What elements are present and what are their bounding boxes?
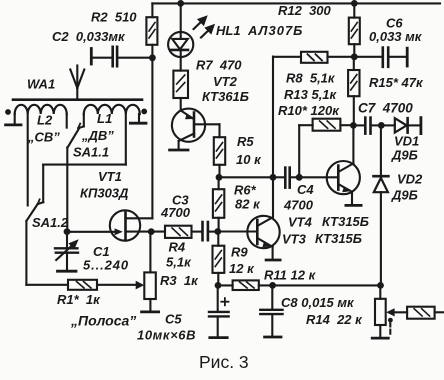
svg-text:КП303Д: КП303Д xyxy=(80,186,129,201)
wire SA1.1 lever to VT1 gate node xyxy=(66,147,68,231)
resistor R3 xyxy=(142,232,159,312)
node junction top-left (R2 top) xyxy=(151,3,153,17)
svg-text:R2 510: R2 510 xyxy=(91,10,137,25)
svg-text:SA1.2: SA1.2 xyxy=(32,215,69,230)
diode VD1 xyxy=(381,118,421,134)
svg-text:VD1: VD1 xyxy=(394,134,419,149)
diode VD2 xyxy=(374,125,389,285)
svg-text:VT1: VT1 xyxy=(98,169,122,184)
wire L2 tap to SA1.2 left contact xyxy=(27,114,29,206)
svg-text:VT3: VT3 xyxy=(282,232,307,247)
resistor R2 xyxy=(146,17,157,45)
node R9/R11/C5 junction dot xyxy=(215,282,222,289)
svg-text:VT2: VT2 xyxy=(213,74,238,89)
resistor R9 xyxy=(213,232,225,286)
node R14 wiper dot xyxy=(388,318,393,323)
inductor L2 xyxy=(15,105,67,114)
resistor R1 xyxy=(68,280,97,290)
svg-text:R9: R9 xyxy=(231,245,248,260)
wire VT4 base lead xyxy=(299,176,338,178)
capacitor C2 xyxy=(91,47,152,66)
svg-text:R13 5,1к: R13 5,1к xyxy=(284,87,338,102)
capacitor C1 variable xyxy=(55,232,79,272)
wire VT2 base to R5 xyxy=(218,124,220,137)
svg-text:R5: R5 xyxy=(237,134,254,149)
svg-text:С7 4700: С7 4700 xyxy=(358,101,413,116)
capacitor C7 xyxy=(353,118,381,134)
LED HL1 emission arrows xyxy=(194,15,216,37)
antenna WA1 xyxy=(70,66,84,100)
wire R11 node to VD2/R14 node xyxy=(273,284,381,286)
transistor VT3 xyxy=(247,216,280,260)
inductor L1 xyxy=(84,105,140,114)
wire HL1 to R7 xyxy=(180,50,182,71)
wire rail to SA1.2 right contact (with foot) xyxy=(38,165,44,204)
wire L1 left end (SA1.1 contact with foot) xyxy=(78,114,84,128)
resistor R12 xyxy=(349,3,360,56)
node R13/C7/R10/VT4 collector junction dot xyxy=(350,122,357,129)
node C2/R2 junction dot xyxy=(149,54,156,61)
svg-text:VD2: VD2 xyxy=(397,172,423,187)
svg-text:R10* 120к: R10* 120к xyxy=(278,103,340,118)
node VT1 source / R4 / R3 junction dot xyxy=(148,228,155,235)
wire x273 column (R8 corner down to VT3 collector) xyxy=(272,57,274,218)
svg-text:0,033 мк: 0,033 мк xyxy=(369,29,423,44)
svg-text:HL1: HL1 xyxy=(216,23,241,38)
wire R7 to VT2 emitter xyxy=(180,98,182,111)
svg-text:„СВ”: „СВ” xyxy=(27,130,60,145)
wire L2 right end (SA1.1 contact) xyxy=(66,114,68,128)
node VT1 gate / C1 junction dot xyxy=(64,228,71,235)
svg-text:R11 12 к: R11 12 к xyxy=(264,268,317,283)
wire R14 wiper arrow from output resistor xyxy=(386,308,407,316)
capacitor C6 xyxy=(354,48,407,67)
resistor R5 xyxy=(214,137,225,165)
node R6/C3/VT3base/R9 junction dot xyxy=(214,228,221,235)
node VD2/R14 junction dot xyxy=(377,282,384,289)
svg-text:Рис. 3: Рис. 3 xyxy=(199,352,249,372)
node R11/C8 junction dot xyxy=(269,282,276,289)
wire dashed mechanical link below wiper xyxy=(389,323,391,337)
transistor VT1 xyxy=(110,210,153,240)
node R5R6/C4/VT3 collector junction dot xyxy=(270,174,277,181)
svg-text:4700: 4700 xyxy=(160,205,191,220)
svg-text:КТ315Б: КТ315Б xyxy=(322,214,369,229)
svg-text:АЛ307Б: АЛ307Б xyxy=(247,23,303,38)
svg-text:Д9Б: Д9Б xyxy=(391,148,418,163)
svg-text:R6*: R6* xyxy=(234,183,257,198)
capacitor C5 electrolytic xyxy=(209,285,229,337)
node HL1 top junction dot xyxy=(177,0,184,7)
svg-text:„ДВ”: „ДВ” xyxy=(81,128,114,143)
svg-text:С5: С5 xyxy=(165,312,182,327)
switch SA1.1 lever xyxy=(68,129,79,148)
svg-text:WA1: WA1 xyxy=(27,77,55,92)
svg-text:R15* 47к: R15* 47к xyxy=(369,75,424,90)
svg-text:R12 300: R12 300 xyxy=(278,3,332,18)
svg-text:R14 22 к: R14 22 к xyxy=(306,312,363,327)
svg-text:VT4: VT4 xyxy=(288,215,313,230)
wire VT3 base lead xyxy=(218,230,257,232)
wire VT1 gate lead xyxy=(67,231,114,233)
node L2 polarity dot xyxy=(5,109,11,115)
svg-text:5,1к: 5,1к xyxy=(166,255,192,270)
svg-text:R8 5,1к: R8 5,1к xyxy=(286,71,336,86)
svg-text:С4: С4 xyxy=(297,182,314,197)
svg-text:С2 0,033мк: С2 0,033мк xyxy=(52,29,126,44)
wire SA1.2 lever down and across to R1 xyxy=(26,221,68,285)
resistor R4 xyxy=(151,226,191,238)
wire L2 left end terminal xyxy=(6,114,21,125)
svg-text:82 к: 82 к xyxy=(235,197,261,212)
transistor VT2 xyxy=(170,109,220,150)
svg-text:5...240: 5...240 xyxy=(83,258,129,273)
LED HL1 xyxy=(168,32,193,57)
wire L1 right end terminal xyxy=(130,114,146,123)
svg-text:„Полоса”: „Полоса” xyxy=(70,313,136,329)
svg-text:КТ315Б: КТ315Б xyxy=(315,231,362,246)
resistor output (headphone feed) xyxy=(407,307,444,319)
wire R1 to R3 with arrow xyxy=(97,281,144,290)
svg-text:L1: L1 xyxy=(97,111,112,126)
svg-text:КТ361Б: КТ361Б xyxy=(202,89,249,104)
node R12 top rail junction dot xyxy=(351,0,358,7)
resistor R14 variable xyxy=(372,285,388,338)
svg-text:10мк×6В: 10мк×6В xyxy=(137,328,196,343)
resistor R11 xyxy=(218,280,273,290)
node L1 polarity dot xyxy=(141,109,147,115)
resistor R6 xyxy=(213,177,224,231)
wire band-select rail xyxy=(43,164,126,166)
wire R5 to node xyxy=(218,165,220,178)
svg-text:С8 0,015 мк: С8 0,015 мк xyxy=(281,295,355,310)
capacitor C8 xyxy=(260,285,282,337)
switch SA1.2 lever xyxy=(26,205,37,221)
wire R5/R6 node to x273 column xyxy=(219,176,273,178)
resistor R7 xyxy=(173,71,188,98)
svg-text:SA1.1: SA1.1 xyxy=(73,145,109,160)
svg-text:R4: R4 xyxy=(169,240,186,255)
svg-text:10 к: 10 к xyxy=(236,152,262,167)
node C4/R10/VT4 base junction dot xyxy=(296,174,303,181)
capacitor C4 xyxy=(273,168,299,188)
svg-text:R3 1к: R3 1к xyxy=(160,273,199,288)
svg-text:R7 470: R7 470 xyxy=(196,58,242,73)
node C7/VD1/VD2 junction dot xyxy=(378,122,385,129)
transistor VT4 xyxy=(327,125,361,205)
svg-text:R1* 1к: R1* 1к xyxy=(57,292,101,307)
ferrite rod (magnetic antenna core) xyxy=(13,98,142,101)
svg-text:12 к: 12 к xyxy=(229,261,255,276)
wire HL1 top lead xyxy=(180,3,182,37)
wire R2 bottom to VT1 drain column xyxy=(151,45,153,219)
resistor R10 xyxy=(299,119,353,178)
resistor R13 xyxy=(348,57,359,126)
node R5/R6 junction dot xyxy=(216,174,223,181)
svg-text:Д9Б: Д9Б xyxy=(391,188,418,203)
wire L1 tap riser xyxy=(125,114,127,165)
capacitor C3 xyxy=(192,222,218,240)
resistor R8 xyxy=(273,52,354,63)
svg-text:4700: 4700 xyxy=(283,198,314,213)
node R12/R8/C6/R13 junction dot xyxy=(351,53,358,60)
svg-text:L2: L2 xyxy=(37,113,53,128)
wire top supply rail xyxy=(152,2,440,4)
